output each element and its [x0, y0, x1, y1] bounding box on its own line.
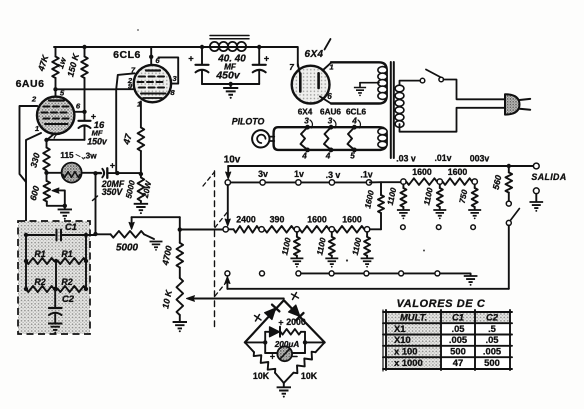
- capacitor filter left 40MF: [201, 47, 203, 64]
- resistor 10K right: [316, 342, 325, 352]
- ground (C2): [48, 324, 62, 330]
- capacitor 20MF 350V: [96, 172, 102, 174]
- svg-text:.05: .05: [485, 334, 498, 345]
- resistor 1600 vertical: [380, 182, 382, 229]
- svg-text:2400: 2400: [236, 215, 256, 225]
- svg-text:3: 3: [304, 117, 309, 126]
- svg-text:3: 3: [328, 117, 333, 126]
- wiper 5000: [131, 217, 133, 224]
- potentiometer 600: [46, 173, 48, 181]
- bridge inner loop: [245, 341, 265, 343]
- svg-text:MULT.: MULT.: [400, 312, 427, 323]
- ground (600): [64, 206, 66, 209]
- wire cathode node: [47, 139, 85, 141]
- svg-text:X1: X1: [394, 323, 405, 334]
- svg-text:.01v: .01v: [434, 153, 451, 163]
- svg-text:+: +: [278, 318, 283, 328]
- diode D3: [265, 331, 269, 333]
- AC plug: [505, 94, 520, 114]
- svg-text:6CL6: 6CL6: [346, 108, 366, 117]
- ground (filter): [230, 84, 232, 87]
- wiper 600: [54, 190, 65, 205]
- center tap ground: [360, 82, 379, 84]
- svg-text:4: 4: [325, 152, 331, 161]
- switch AC: [400, 81, 421, 85]
- svg-text:4: 4: [351, 117, 357, 126]
- svg-text:R2: R2: [61, 277, 72, 287]
- svg-text:1600: 1600: [342, 215, 362, 225]
- capacitor 16MF 150v: [84, 112, 86, 121]
- wiper 10K arrow: [190, 298, 284, 300]
- svg-text:5: 5: [60, 89, 65, 98]
- svg-text:150v: 150v: [87, 137, 108, 147]
- svg-text:.3w: .3w: [83, 152, 97, 161]
- filament bus: [274, 127, 387, 150]
- svg-text:+: +: [270, 352, 275, 362]
- svg-text:C1: C1: [452, 312, 464, 323]
- svg-text:R1: R1: [61, 249, 72, 259]
- svg-text:6AU6: 6AU6: [16, 78, 45, 90]
- wire to plug lower: [400, 108, 506, 132]
- resistor 1100 shunt e: [439, 184, 441, 188]
- svg-text:.005: .005: [483, 345, 501, 356]
- svg-text:C2: C2: [486, 312, 499, 323]
- svg-text:C2: C2: [62, 293, 75, 304]
- wire to plug upper: [444, 80, 506, 100]
- svg-text:3: 3: [172, 74, 177, 83]
- tube 6AU6: [37, 97, 74, 134]
- svg-text:5000: 5000: [116, 243, 138, 254]
- ground (contact row): [467, 273, 471, 275]
- svg-text:1: 1: [35, 124, 39, 133]
- svg-text:2000: 2000: [286, 317, 306, 327]
- resistor 47: [138, 127, 145, 151]
- bridge diamond: [245, 300, 325, 342]
- resistor 10K left: [245, 342, 254, 352]
- svg-text:SALIDA: SALIDA: [531, 172, 566, 182]
- gang dashed line: [214, 171, 216, 331]
- svg-text:R2: R2: [34, 277, 45, 287]
- bus bottom: [227, 288, 508, 290]
- resistor 1100 shunt c: [366, 232, 368, 237]
- svg-text:10v: 10v: [224, 155, 241, 166]
- resistor 1100 shunt a: [296, 232, 298, 237]
- wire grid feedback: [115, 89, 117, 173]
- svg-text:47: 47: [453, 357, 463, 368]
- svg-text:10K: 10K: [253, 371, 270, 381]
- ground (5000): [144, 234, 154, 239]
- svg-text:6AU6: 6AU6: [320, 108, 341, 117]
- svg-text:390: 390: [270, 215, 285, 225]
- svg-text:003v: 003v: [470, 154, 490, 164]
- svg-text:R1: R1: [34, 249, 45, 259]
- polarity x marks: [255, 315, 262, 322]
- resistor 560: [507, 164, 511, 168]
- svg-text:X10: X10: [394, 334, 411, 345]
- svg-text:450v: 450v: [215, 70, 241, 82]
- capacitor filter right 40MF: [258, 47, 260, 64]
- svg-text:+: +: [188, 53, 194, 64]
- svg-text:.3 v: .3 v: [326, 170, 341, 180]
- resistor 4700: [179, 217, 181, 243]
- svg-text:6: 6: [327, 92, 332, 101]
- resistor 1100 shunt b: [331, 232, 333, 237]
- rheostat 115 ohm .3w: [47, 172, 62, 174]
- svg-text:6X4: 6X4: [304, 49, 323, 60]
- svg-text:.5: .5: [488, 323, 496, 334]
- svg-text:.1v: .1v: [360, 170, 372, 180]
- svg-text:VALORES DE C: VALORES DE C: [397, 298, 486, 310]
- resistor 1100 shunt d: [402, 184, 404, 188]
- svg-text:1v: 1v: [294, 169, 304, 179]
- svg-text:1600: 1600: [412, 167, 432, 177]
- diode D1: [265, 308, 276, 320]
- svg-text:.05: .05: [451, 323, 464, 334]
- resistor 750 shunt: [474, 184, 476, 188]
- svg-text:1600: 1600: [448, 167, 468, 177]
- wire top rail salida: [228, 165, 536, 167]
- svg-text:.03 v: .03 v: [396, 154, 416, 164]
- svg-text:x 1000: x 1000: [394, 357, 423, 368]
- svg-text:2: 2: [31, 95, 37, 104]
- potentiometer 5000: [111, 231, 145, 238]
- wire to attenuator: [180, 229, 223, 231]
- wiper 3 arrow: [226, 282, 228, 289]
- potentiometer 10K: [179, 268, 181, 279]
- svg-text:6X4: 6X4: [298, 108, 313, 117]
- svg-text:.005: .005: [449, 334, 467, 345]
- wire stray mark: [93, 196, 98, 201]
- HV winding loop: [331, 62, 387, 103]
- ground (bridge): [283, 383, 285, 386]
- ground (5000 20W): [134, 204, 148, 210]
- wire C1 out: [93, 232, 97, 236]
- resistor 330: [46, 140, 48, 148]
- ladder row: [223, 227, 228, 232]
- diode D2: [289, 305, 300, 317]
- tube 6CL6: [149, 55, 153, 59]
- multiplier box: [18, 221, 90, 334]
- svg-text:5: 5: [350, 152, 355, 161]
- svg-text:1600: 1600: [307, 215, 327, 225]
- wire filter bottom: [202, 83, 259, 85]
- resistor 47K: [55, 47, 57, 57]
- contact circles right: [401, 225, 406, 230]
- wire B+ rail: [54, 47, 298, 66]
- svg-text:350V: 350V: [102, 187, 124, 197]
- transformer core: [391, 62, 394, 158]
- ground (10K): [173, 322, 187, 328]
- svg-text:C1: C1: [65, 221, 77, 232]
- switch output: [511, 209, 520, 221]
- pin 5: [55, 89, 57, 96]
- wire 20MF node vertical: [95, 173, 97, 234]
- contact row bottom: [225, 271, 230, 276]
- svg-text:6CL6: 6CL6: [113, 49, 141, 61]
- svg-text:6: 6: [76, 102, 81, 111]
- svg-text:x 100: x 100: [394, 345, 417, 356]
- svg-text:4: 4: [301, 152, 307, 161]
- wiper 2 arrow: [227, 185, 229, 219]
- svg-text:500: 500: [484, 357, 500, 368]
- svg-text:115: 115: [60, 151, 74, 160]
- resistor 150K: [82, 45, 86, 49]
- svg-text:500: 500: [450, 345, 466, 356]
- svg-text:3v: 3v: [258, 169, 268, 179]
- svg-text:+: +: [264, 53, 270, 64]
- svg-text:PILOTO: PILOTO: [232, 117, 265, 127]
- svg-text:8: 8: [170, 88, 175, 97]
- wiper 10v arrow: [227, 166, 229, 173]
- node grid-bus junction: [53, 87, 57, 91]
- terminal ground: [533, 188, 539, 194]
- svg-text:10K: 10K: [301, 371, 318, 381]
- tap row: [228, 181, 366, 183]
- wire speck marks: [346, 259, 348, 261]
- screen loop pin3: [158, 57, 178, 83]
- svg-text:+: +: [110, 161, 115, 171]
- table valores: [386, 312, 510, 369]
- svg-text:7: 7: [289, 63, 294, 72]
- terminal SALIDA: [533, 163, 539, 169]
- resistor 5000 20W: [139, 172, 143, 176]
- primary winding: [395, 85, 404, 92]
- choke coil: [210, 36, 249, 39]
